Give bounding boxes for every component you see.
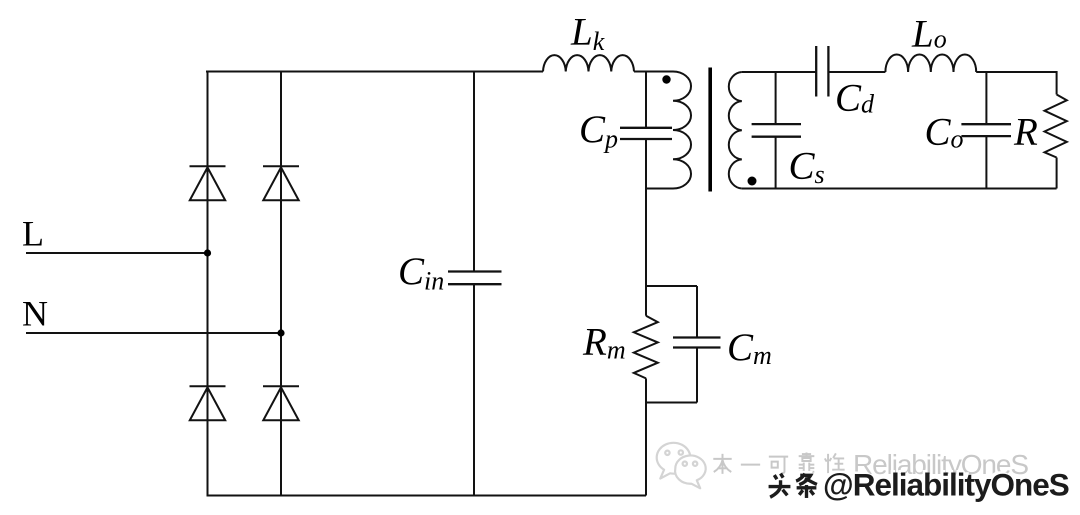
svg-text:Cm: Cm bbox=[727, 326, 772, 370]
svg-text:Cd: Cd bbox=[835, 76, 875, 119]
svg-text:R: R bbox=[1013, 110, 1038, 153]
svg-text:@ReliabilityOneS: @ReliabilityOneS bbox=[823, 466, 1069, 502]
svg-text:Co: Co bbox=[925, 110, 964, 153]
svg-text:L: L bbox=[22, 214, 44, 254]
svg-text:N: N bbox=[22, 294, 48, 334]
svg-text:Rm: Rm bbox=[582, 320, 626, 364]
svg-text:Cs: Cs bbox=[789, 144, 825, 189]
svg-text:Lo: Lo bbox=[911, 12, 947, 55]
svg-text:Cp: Cp bbox=[579, 108, 618, 154]
svg-text:Lk: Lk bbox=[570, 10, 605, 56]
svg-text:Cin: Cin bbox=[398, 250, 444, 296]
